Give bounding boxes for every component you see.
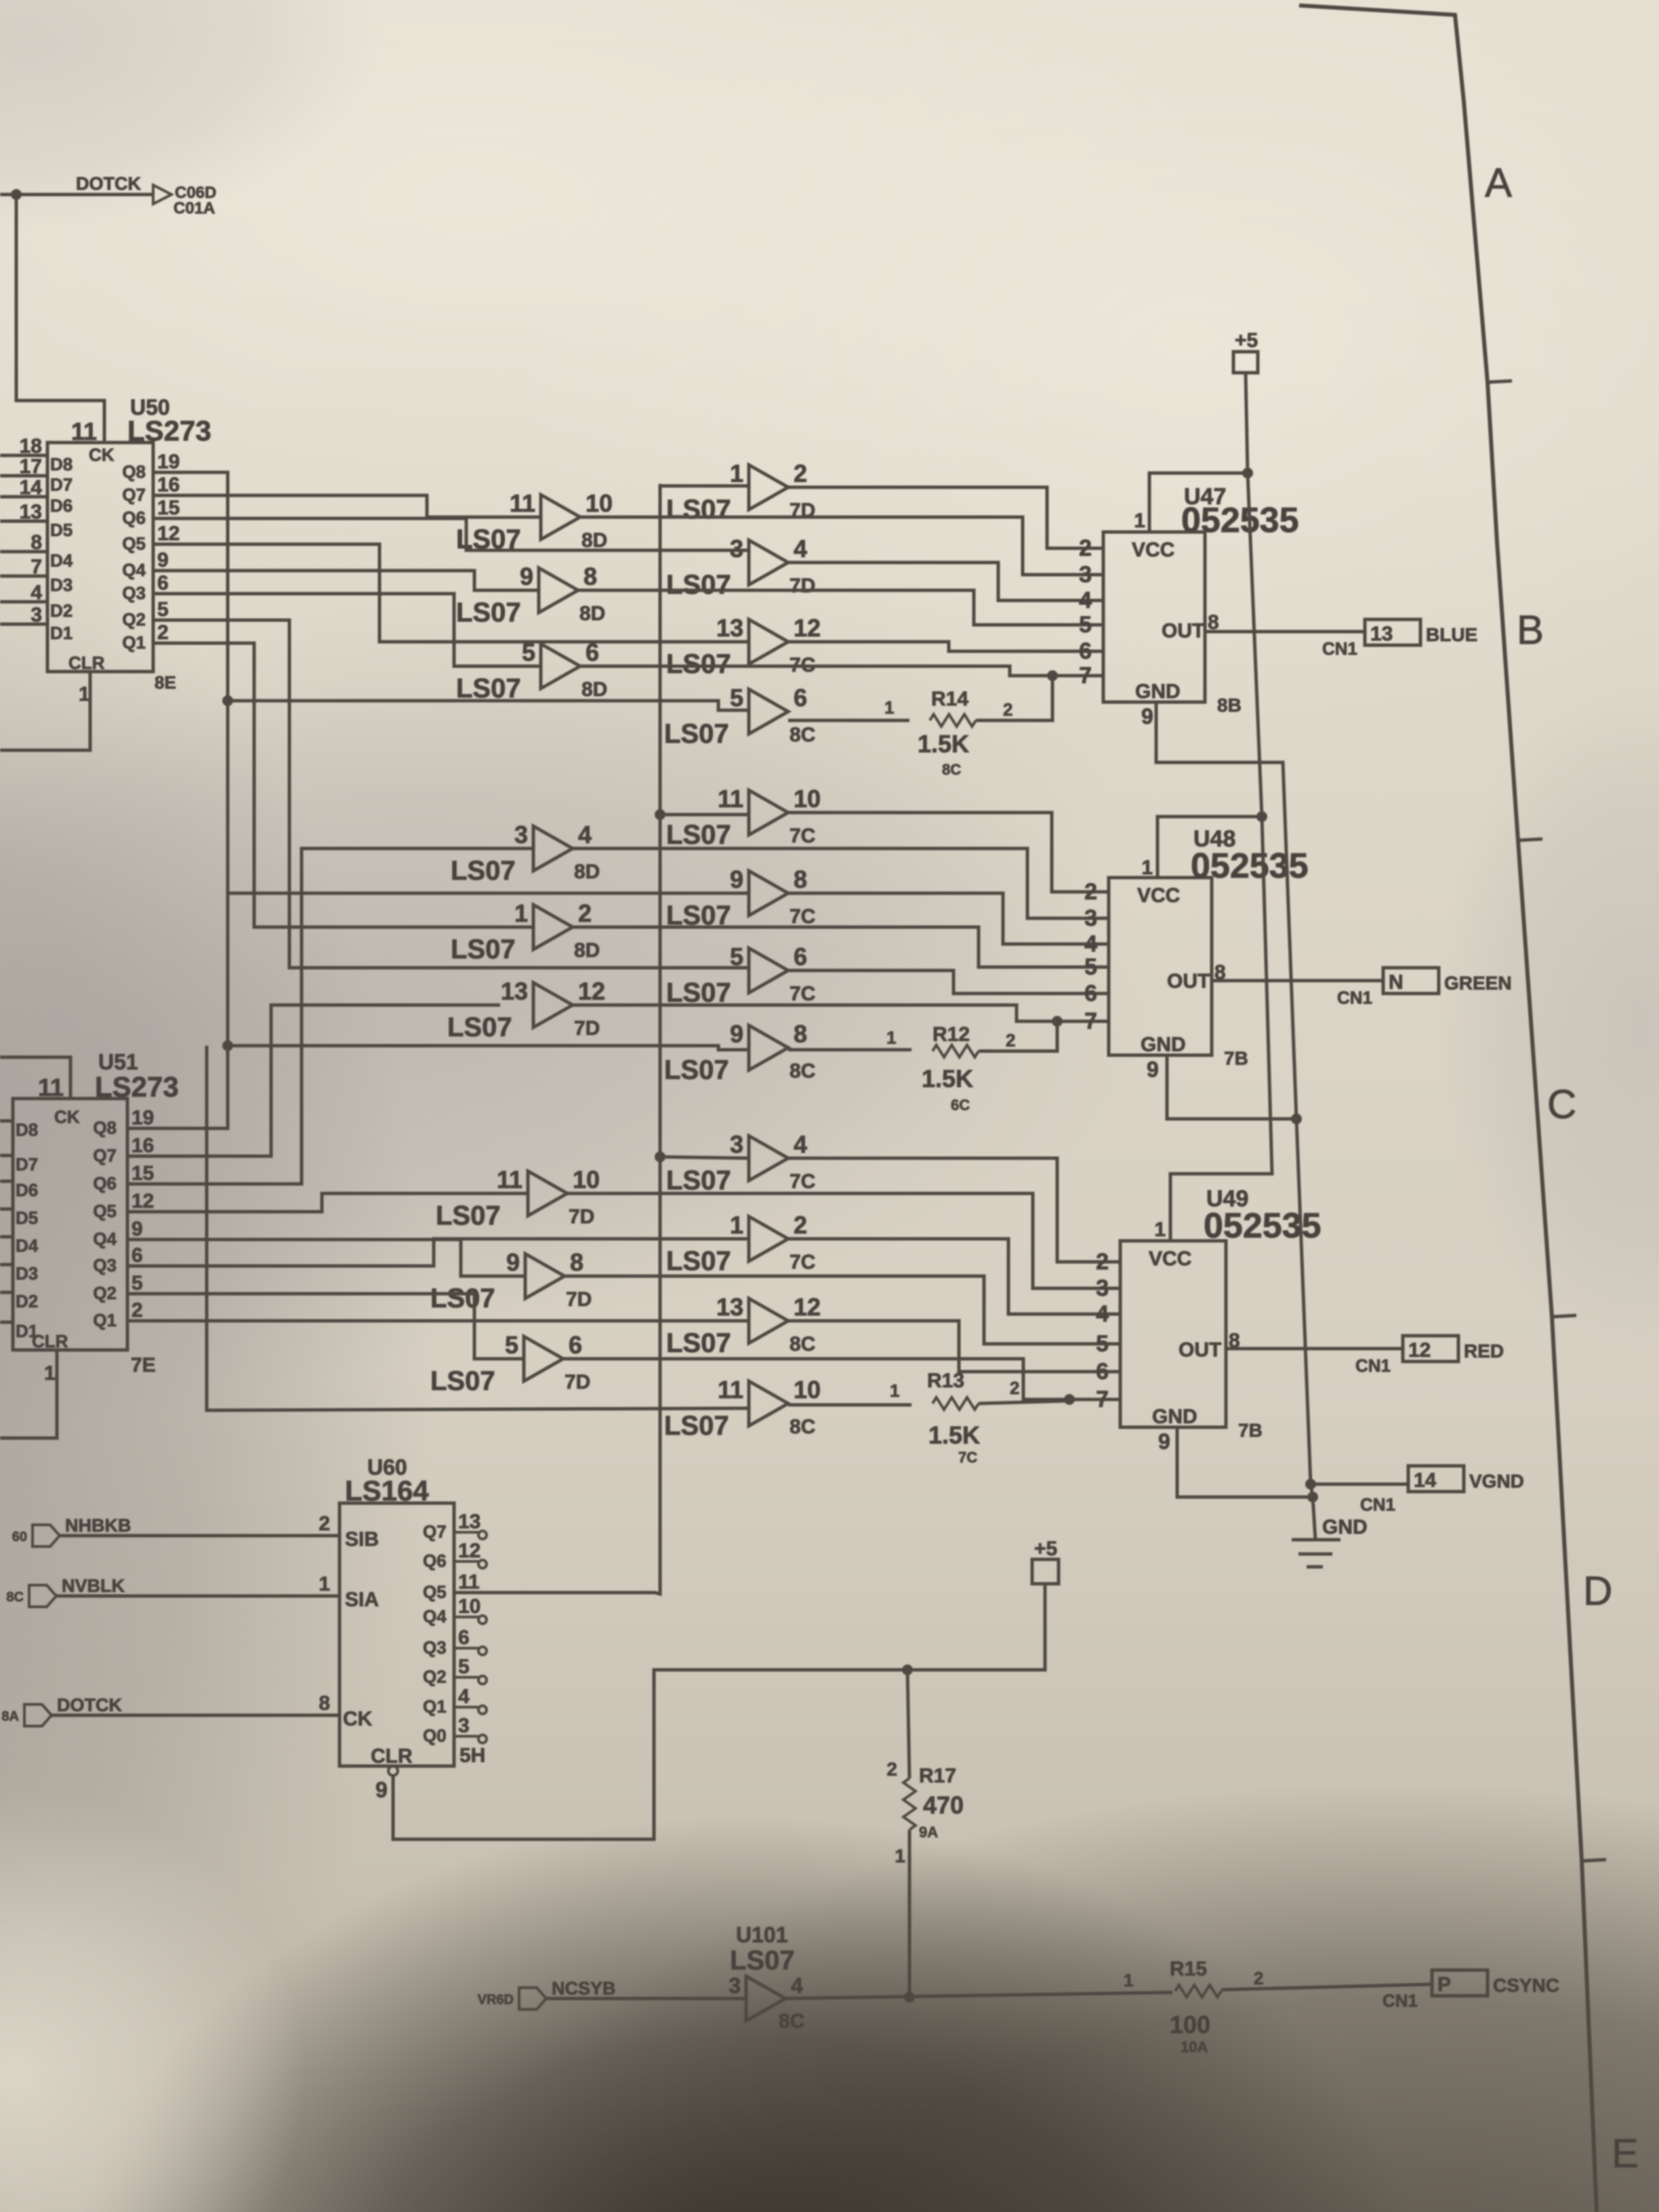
bus junction at group2 input [655, 809, 665, 820]
svg-text:D4: D4 [50, 550, 73, 571]
svg-text:9A: 9A [919, 1824, 938, 1841]
ground symbol [1313, 1497, 1315, 1540]
svg-text:13: 13 [716, 614, 743, 642]
svg-text:4: 4 [794, 1130, 807, 1158]
IC U60 LS164 body [340, 1503, 454, 1766]
svg-text:2: 2 [131, 1299, 143, 1322]
svg-text:5: 5 [730, 684, 743, 712]
U51 output pin 12 (Q5) stub [127, 1210, 135, 1214]
svg-text:LS07: LS07 [666, 1166, 731, 1195]
svg-text:6: 6 [794, 684, 807, 712]
svg-text:N: N [1389, 971, 1404, 994]
svg-text:LS07: LS07 [451, 856, 516, 886]
U47 pin 7 stub [1094, 674, 1103, 678]
svg-text:12: 12 [578, 977, 605, 1005]
wire group1 8D(5/6) output to U47 pin7 [577, 666, 1103, 676]
svg-text:12: 12 [794, 614, 821, 642]
wire NCSYB to U101 input [546, 1997, 746, 2001]
svg-text:LS07: LS07 [666, 649, 731, 679]
svg-text:3: 3 [514, 821, 528, 848]
svg-text:1: 1 [890, 1380, 899, 1401]
U49 pin 4 stub [1111, 1313, 1120, 1316]
svg-text:6: 6 [1096, 1359, 1109, 1385]
svg-text:RED: RED [1464, 1340, 1504, 1361]
svg-text:7E: 7E [131, 1354, 156, 1376]
wire U51 Q4 to group3 buffer 7D(9/8) input [135, 1240, 525, 1276]
wire U51 Q7 up to group2 buffer 7D(13/12) input [135, 1005, 500, 1156]
svg-text:+5: +5 [1235, 329, 1258, 352]
junction on riser at row 1543 [222, 1040, 233, 1051]
svg-text:Q8: Q8 [122, 462, 146, 482]
U48 pin 5 stub [1100, 966, 1109, 969]
wire +5 down to node [907, 1584, 1045, 1670]
buffer LS07 8D (11/10) group1 [541, 495, 580, 539]
svg-text:1.5K: 1.5K [928, 1421, 980, 1449]
svg-text:LS07: LS07 [451, 935, 516, 964]
wire VGND node to CN1-14 [1311, 1483, 1408, 1486]
svg-text:5: 5 [131, 1272, 143, 1294]
svg-text:DOTCK: DOTCK [76, 173, 141, 194]
wire group1 7C(13/12) output to U47 pin6 [788, 642, 1103, 651]
wire group3 7D(5/6) output to U49 pin7 [563, 1359, 1120, 1399]
svg-text:CK: CK [54, 1107, 80, 1127]
input tag DOTCK bottom [24, 1704, 52, 1726]
svg-text:C01A: C01A [173, 199, 215, 218]
wire group3 8C output to R13 [788, 1404, 912, 1407]
U48 pin 2 stub [1100, 890, 1109, 894]
svg-text:U101: U101 [736, 1923, 788, 1947]
wire U101 output to R15 [785, 1992, 1172, 1999]
wire group2 7D(13/12) output to U48 pin7 [570, 1005, 1109, 1021]
svg-text:8: 8 [319, 1692, 330, 1715]
svg-text:8D: 8D [574, 861, 600, 883]
wire bus to group2 buffer 7C(11/10) input [660, 813, 749, 817]
U51 input D8 wire from left edge [0, 1120, 13, 1123]
svg-text:052535: 052535 [1191, 846, 1309, 886]
svg-text:2: 2 [157, 621, 169, 644]
buffer LS07 8C (5/6) group1 [749, 689, 788, 734]
svg-text:6: 6 [794, 943, 807, 970]
svg-text:SIA: SIA [345, 1589, 379, 1611]
svg-text:LS07: LS07 [430, 1366, 495, 1396]
svg-text:Q5: Q5 [122, 533, 146, 554]
svg-text:8C: 8C [790, 1333, 815, 1355]
svg-text:1: 1 [44, 1362, 56, 1385]
svg-text:60: 60 [12, 1530, 27, 1544]
svg-text:Q2: Q2 [93, 1283, 117, 1303]
svg-text:Q3: Q3 [122, 583, 146, 603]
U49 pin 6 stub [1111, 1370, 1120, 1374]
U51 input D4 wire from left edge [0, 1235, 13, 1239]
U51 output pin 16 (Q7) stub [127, 1155, 135, 1158]
svg-text:OUT: OUT [1179, 1339, 1221, 1361]
wire group2 8D(3/4) output to U48 pin3 [570, 848, 1109, 918]
wire U50 Q2 down to group2 buffer 7C(5/6) input [163, 620, 749, 968]
svg-text:Q2: Q2 [423, 1666, 447, 1687]
svg-text:9: 9 [131, 1218, 143, 1240]
U50 input pin 17 (D7) wire from left edge [0, 474, 47, 478]
buffer LS07 8C (11/10) group3 [749, 1381, 788, 1426]
U48 pin 7 stub [1100, 1020, 1109, 1023]
svg-text:3: 3 [1079, 562, 1092, 588]
svg-text:7D: 7D [790, 575, 815, 597]
U51 output pin 5 (Q2) stub [127, 1292, 135, 1296]
buffer LS07 7D (13/12) group2 [533, 983, 573, 1027]
svg-text:Q1: Q1 [423, 1696, 447, 1717]
svg-text:2: 2 [319, 1513, 330, 1535]
input tag NHBKB [33, 1525, 60, 1547]
svg-text:13: 13 [458, 1511, 480, 1533]
svg-text:8: 8 [794, 865, 807, 893]
svg-text:15: 15 [131, 1162, 154, 1185]
connector CN1 pin 12 RED [1403, 1336, 1458, 1361]
U50 output pin 16 (Q7) stub [153, 494, 163, 497]
svg-text:12: 12 [157, 523, 180, 545]
svg-text:13: 13 [716, 1293, 743, 1321]
svg-text:11: 11 [718, 785, 743, 813]
svg-text:100: 100 [1170, 2011, 1210, 2039]
wire group1 8D(11/10) output to U47 pin3 [577, 517, 1103, 575]
wire U49 OUT to CN1-12 [1226, 1347, 1403, 1351]
svg-text:16: 16 [157, 474, 180, 496]
svg-text:LS07: LS07 [664, 1411, 729, 1441]
wire U51 Q3 to group3 buffer 7C(1/2) input [135, 1239, 749, 1266]
U49 pin 7 stub [1111, 1398, 1120, 1401]
wire R14 to U47 pin7 [976, 676, 1052, 720]
svg-text:052535: 052535 [1204, 1206, 1322, 1246]
svg-text:Q7: Q7 [423, 1521, 447, 1542]
svg-text:D7: D7 [50, 474, 73, 495]
border zone tick D/E [1582, 1860, 1606, 1861]
svg-text:12: 12 [458, 1540, 480, 1562]
svg-text:1: 1 [730, 1211, 743, 1239]
svg-text:9: 9 [506, 1248, 520, 1276]
IC U49 052535 body [1120, 1241, 1226, 1427]
buffer LS07 7D (9/8) group3 [525, 1254, 565, 1298]
svg-text:10: 10 [573, 1166, 600, 1193]
svg-text:Q7: Q7 [93, 1145, 117, 1166]
bus junction at group3 input [655, 1151, 665, 1162]
buffer LS07 7C (3/4) group3 [749, 1136, 788, 1181]
U51 output pin 6 (Q3) stub [127, 1265, 135, 1268]
svg-text:Q6: Q6 [423, 1551, 447, 1571]
wire row 1034 to group1 buffer 8C input [228, 701, 749, 710]
off-page arrow to C06D/C01A [153, 185, 171, 204]
U51 input D3 wire from left edge [0, 1263, 13, 1267]
buffer LS07 7C (1/2) group3 [749, 1216, 788, 1261]
wire node down to R17 [907, 1670, 909, 1778]
svg-text:CSYNC: CSYNC [1493, 1975, 1559, 1996]
junction gnd node [1307, 1492, 1318, 1502]
svg-text:13: 13 [1370, 623, 1393, 645]
wire U50 Q8 down the left riser [135, 472, 228, 1128]
input tag NCSYB [519, 1988, 546, 2009]
svg-text:10: 10 [794, 1376, 821, 1404]
svg-text:2: 2 [578, 899, 592, 927]
U50 input pin 4 (D2) wire from left edge [0, 600, 47, 604]
svg-text:4: 4 [1084, 931, 1097, 957]
wire NVBLK to U60 SIA [56, 1595, 340, 1598]
U51 output pin 15 (Q6) stub [127, 1183, 135, 1186]
svg-text:NHBKB: NHBKB [65, 1515, 131, 1536]
U48 pin 3 stub [1100, 917, 1109, 920]
svg-text:D6: D6 [16, 1180, 38, 1200]
svg-text:B: B [1517, 607, 1544, 653]
svg-text:LS07: LS07 [666, 495, 731, 525]
svg-text:5: 5 [1084, 954, 1097, 980]
svg-text:LS273: LS273 [95, 1071, 179, 1103]
svg-text:4: 4 [30, 581, 42, 604]
wire U51 Q2 to group3 buffer 7D(5/6) input [135, 1294, 524, 1359]
wire U51 Q5 to group3 buffer 7D(11/10) input [135, 1193, 528, 1212]
svg-text:2: 2 [794, 459, 807, 487]
svg-text:11: 11 [497, 1166, 523, 1193]
svg-text:10: 10 [586, 489, 613, 517]
svg-text:7: 7 [1096, 1387, 1109, 1412]
U50 output pin 15 (Q6) stub [153, 517, 163, 520]
resistor R15 100 [1175, 1985, 1221, 1997]
svg-text:1: 1 [319, 1573, 330, 1595]
svg-text:CLR: CLR [32, 1331, 68, 1351]
svg-text:CN1: CN1 [1355, 1355, 1391, 1376]
svg-text:D3: D3 [16, 1263, 38, 1284]
svg-text:GREEN: GREEN [1444, 972, 1512, 994]
svg-text:4: 4 [791, 1973, 803, 1998]
svg-text:17: 17 [20, 455, 42, 478]
svg-text:7C: 7C [790, 905, 815, 928]
svg-text:OUT: OUT [1162, 620, 1204, 642]
svg-text:2: 2 [1079, 535, 1092, 561]
svg-text:R13: R13 [927, 1370, 964, 1392]
wire R12 to U48 pin7 [979, 1021, 1057, 1051]
svg-text:Q3: Q3 [93, 1255, 117, 1275]
svg-text:8: 8 [30, 531, 42, 554]
wire U50 Q3 to group1 buffer 8D(5/6) input [163, 594, 541, 666]
resistor R17 470 [903, 1778, 916, 1830]
svg-text:1: 1 [886, 1027, 896, 1048]
buffer LS07 8C (9/8) group2 [749, 1025, 788, 1070]
wire group3 7C(1/2) output to U49 pin4 [788, 1239, 1120, 1314]
svg-text:8: 8 [794, 1020, 807, 1048]
input tag NVBLK [29, 1585, 56, 1607]
svg-text:9: 9 [1141, 704, 1153, 729]
svg-text:8: 8 [570, 1248, 583, 1276]
svg-text:+5: +5 [1034, 1538, 1057, 1560]
svg-text:5: 5 [505, 1331, 518, 1359]
svg-text:VCC: VCC [1137, 884, 1180, 907]
svg-text:2: 2 [794, 1211, 807, 1239]
svg-text:R17: R17 [919, 1765, 956, 1787]
svg-text:Q5: Q5 [93, 1201, 117, 1221]
vertical bus wire from U60 Q5 up to buffer inputs [454, 484, 660, 1594]
svg-text:19: 19 [131, 1107, 154, 1129]
svg-text:VR6D: VR6D [478, 1992, 514, 2007]
schematic border frame, top-right corner [1299, 5, 1597, 2212]
wire DOTCK from left edge [0, 193, 152, 197]
svg-text:4: 4 [1096, 1301, 1109, 1327]
svg-text:6: 6 [569, 1331, 582, 1359]
wire R17 down to CSYNC line [908, 1830, 912, 1999]
svg-text:LS07: LS07 [456, 674, 521, 703]
svg-text:1: 1 [1134, 510, 1145, 532]
svg-text:Q4: Q4 [93, 1229, 117, 1249]
wire U50 Q7 to group1 buffer 8D input [163, 495, 541, 517]
svg-text:2: 2 [1010, 1378, 1019, 1398]
svg-text:7D: 7D [569, 1206, 594, 1228]
U47 pin1 loop wire [1149, 473, 1248, 532]
svg-text:6: 6 [458, 1626, 470, 1649]
svg-text:3: 3 [1096, 1275, 1109, 1301]
border zone tick A/B [1488, 381, 1512, 382]
wire U48 OUT to CN1-N [1212, 979, 1383, 983]
svg-text:19: 19 [157, 451, 180, 473]
svg-text:3: 3 [730, 1130, 743, 1158]
svg-text:1.5K: 1.5K [922, 1065, 973, 1092]
svg-text:7D: 7D [565, 1371, 590, 1393]
wire group3 7C(3/4) output to U49 pin2 [788, 1158, 1120, 1262]
svg-text:Q1: Q1 [93, 1310, 117, 1330]
svg-text:6: 6 [157, 572, 169, 594]
svg-text:DOTCK: DOTCK [57, 1695, 122, 1715]
svg-text:D5: D5 [16, 1208, 38, 1228]
svg-text:4: 4 [1079, 588, 1092, 613]
svg-text:8C: 8C [6, 1590, 24, 1605]
wire U50 Q5 to group1 buffer 7C(13/12) input [163, 544, 749, 642]
svg-text:Q4: Q4 [423, 1606, 447, 1626]
svg-text:6: 6 [1084, 981, 1097, 1006]
svg-text:7C: 7C [958, 1449, 977, 1466]
svg-text:9: 9 [730, 865, 743, 893]
U50 input pin 8 (D4) wire from left edge [0, 550, 47, 554]
svg-text:8C: 8C [790, 724, 815, 746]
buffer LS07 8D (5/6) group1 [541, 644, 580, 689]
IC U48 052535 body [1109, 878, 1212, 1055]
buffer LS07 8D (1/2) group2 [533, 905, 573, 949]
wire U50 Q4 to group1 buffer 8D(9/8) input [163, 571, 539, 590]
svg-text:13: 13 [501, 977, 528, 1005]
svg-text:2: 2 [886, 1759, 897, 1780]
svg-text:9: 9 [157, 549, 169, 571]
svg-text:GND: GND [1135, 680, 1181, 703]
svg-text:7: 7 [1079, 663, 1092, 689]
svg-text:4: 4 [578, 821, 592, 848]
wire U51 Q1 to group3 buffer 8C(13/12) input [135, 1319, 749, 1323]
svg-text:LS07: LS07 [430, 1284, 495, 1313]
svg-text:11: 11 [38, 1073, 64, 1101]
wire group1 7D(3/4) output to U47 pin4 [788, 562, 1103, 600]
svg-text:18: 18 [20, 435, 42, 457]
+5 rail down to U48 [1248, 473, 1262, 817]
U51 output pin 9 (Q4) stub [127, 1238, 135, 1242]
svg-text:BLUE: BLUE [1426, 624, 1477, 645]
svg-text:8C: 8C [942, 761, 961, 778]
svg-text:3: 3 [729, 1973, 741, 1998]
wire DOTCK junction down to U50 CK [16, 194, 104, 443]
junction R17 / CSYNC line [904, 1992, 915, 2003]
svg-text:13: 13 [20, 501, 42, 523]
svg-text:D2: D2 [50, 600, 73, 621]
U50 CLR pin 1 wire [0, 672, 90, 750]
U51 input D5 wire from left edge [0, 1208, 13, 1211]
svg-text:9: 9 [520, 562, 533, 590]
svg-text:8A: 8A [1, 1709, 19, 1724]
svg-text:D6: D6 [50, 495, 73, 516]
buffer LS07 8D (9/8) group1 [539, 568, 578, 613]
svg-text:2: 2 [1003, 699, 1012, 720]
IC U47 052535 body [1103, 532, 1205, 702]
U50 output pin 12 (Q5) stub [153, 543, 163, 546]
buffer LS07 7C (5/6) group2 [749, 948, 788, 993]
svg-text:1: 1 [79, 683, 90, 705]
U50 input pin 3 (D1) wire from left edge [0, 623, 47, 626]
svg-text:7: 7 [1084, 1008, 1097, 1034]
svg-text:LS07: LS07 [664, 719, 729, 749]
svg-text:8C: 8C [790, 1416, 815, 1438]
svg-text:D3: D3 [50, 575, 73, 595]
U47 pin 6 stub [1094, 650, 1103, 653]
wire group2 7C(9/8) output to U48 pin4 [788, 893, 1109, 944]
svg-text:3: 3 [1084, 905, 1097, 931]
svg-text:5H: 5H [459, 1744, 485, 1767]
svg-text:052535: 052535 [1181, 501, 1299, 540]
svg-text:1: 1 [1124, 1970, 1133, 1990]
svg-text:1: 1 [895, 1845, 905, 1866]
U50 input pin 14 (D6) wire from left edge [0, 495, 47, 499]
U50 output pin 2 (Q1) stub [153, 642, 163, 645]
connector CN1 pin P CSYNC [1432, 1970, 1488, 1996]
wire U50 Q1 down to group2 buffer 8D(1/2) input [163, 643, 533, 927]
svg-text:8: 8 [583, 562, 597, 590]
svg-text:D: D [1583, 1568, 1612, 1614]
svg-text:5: 5 [1079, 612, 1092, 638]
wire +5 to U47 pin1 rail [1246, 373, 1248, 473]
U51 input D7 wire from left edge [0, 1154, 13, 1158]
svg-text:LS164: LS164 [345, 1475, 429, 1507]
U50 output pin 19 (Q8) stub [153, 471, 163, 474]
svg-text:LS07: LS07 [666, 820, 731, 850]
svg-text:12: 12 [794, 1293, 821, 1321]
wire bus to group1 buffer 7D(1/2) input [660, 485, 749, 488]
svg-text:7C: 7C [790, 1170, 815, 1193]
svg-text:GND: GND [1141, 1033, 1186, 1056]
buffer LS07 7D (1/2) group1 [749, 465, 788, 510]
svg-text:10A: 10A [1181, 2039, 1208, 2055]
wire U51 Q6 up to group2 buffer 8D(3/4) input [135, 848, 533, 1184]
junction U49 pin7 and R13 [1064, 1394, 1075, 1405]
U48 pin 4 stub [1100, 943, 1109, 946]
svg-text:14: 14 [1414, 1469, 1437, 1492]
U50 output pin 5 (Q2) stub [153, 619, 163, 622]
U49 pin 5 stub [1111, 1343, 1120, 1346]
+5 rail down to U49 pin1 loop [1170, 817, 1272, 1241]
gnd rail down to VGND node [1296, 1119, 1313, 1497]
wire DOTCK to U60 CK [52, 1714, 340, 1717]
U60 CLR pin 9 bubble [388, 1766, 398, 1776]
wire group2 7C(11/10) output to U48 pin2 [788, 813, 1109, 892]
svg-text:D2: D2 [16, 1291, 38, 1311]
junction U47 pin7 and R14 [1047, 670, 1058, 681]
junction +5 / R17 / CLR node [902, 1664, 913, 1675]
svg-text:GND: GND [1322, 1516, 1368, 1538]
wire group2 8C output to R12 [788, 1048, 912, 1052]
svg-text:LS07: LS07 [664, 1055, 729, 1085]
wire U50 Q6 to group1 buffer 7D(3/4) input [163, 518, 749, 550]
svg-text:CN1: CN1 [1382, 1990, 1418, 2011]
wire group1 8D(9/8) output to U47 pin5 [575, 590, 1103, 625]
svg-text:15: 15 [157, 497, 180, 519]
svg-text:2: 2 [1096, 1249, 1109, 1275]
U50 input pin 18 (D8) wire from left edge [0, 454, 47, 457]
